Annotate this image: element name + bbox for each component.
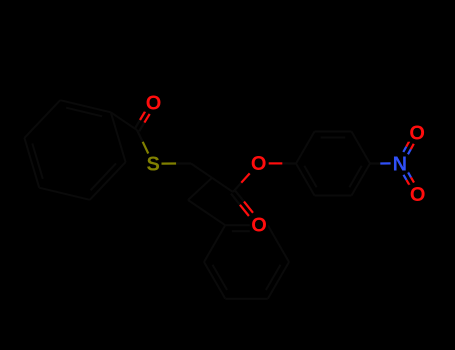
svg-text:O: O bbox=[409, 122, 425, 144]
svg-text:O: O bbox=[251, 214, 267, 236]
svg-text:S: S bbox=[147, 154, 160, 176]
svg-text:O: O bbox=[410, 184, 426, 206]
svg-text:O: O bbox=[146, 92, 162, 114]
svg-text:N: N bbox=[393, 153, 407, 175]
svg-text:O: O bbox=[251, 153, 267, 175]
